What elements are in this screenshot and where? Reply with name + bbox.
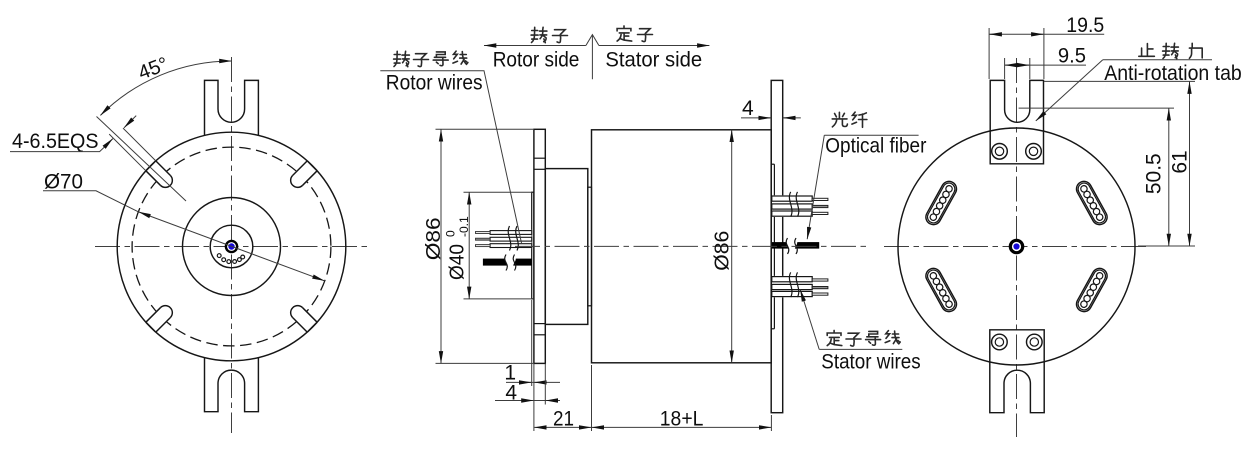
rotor wire break symbol	[508, 226, 518, 251]
svg-text:19.5: 19.5	[1066, 14, 1104, 37]
label 转子 (rotor)	[531, 27, 547, 42]
right view connector slot NW	[923, 179, 959, 228]
left view: rotor-side end view of slip ring	[10, 53, 368, 433]
stator flange tab step lines	[771, 163, 774, 165]
dimension Ø86 right (inside body): dimension line	[731, 130, 733, 363]
middle view: side cross-section	[380, 26, 926, 431]
left view bolt circle Ø70 (dashed)	[132, 147, 331, 346]
label 光纤 (optical fiber CN)	[832, 112, 847, 127]
svg-text:9.5: 9.5	[1058, 45, 1086, 68]
spacer ring between hub and body	[588, 187, 592, 306]
dimension 18+L	[770, 415, 772, 431]
left view connector pin holes (6)	[241, 255, 245, 259]
dimension Ø40 0/-0.1 text	[444, 216, 472, 280]
stator body rectangle	[592, 130, 772, 363]
rotor/stator side divider arrows	[484, 45, 586, 47]
left view horizontal centerline	[95, 246, 368, 248]
left view small hub circle	[210, 225, 253, 268]
left view rim slot NW (with 6.5 width extension lines)	[146, 161, 172, 187]
dimension Ø40 tolerance: extension lines	[464, 191, 533, 193]
svg-text:Rotor wires: Rotor wires	[386, 71, 483, 94]
left view rim slot SE	[291, 306, 317, 332]
svg-text:50.5: 50.5	[1143, 153, 1166, 194]
svg-text:Stator side: Stator side	[605, 48, 702, 71]
left view top anti-rotation tab (fork)	[205, 80, 259, 136]
bottom tab screw holes	[992, 334, 1008, 350]
right view center bearing: black ring with blue core	[1009, 239, 1025, 255]
dimension 45° arc	[100, 61, 231, 115]
svg-text:21: 21	[553, 408, 574, 431]
dimension Ø86 left: dimension line	[440, 129, 442, 363]
svg-text:-0.1: -0.1	[457, 216, 471, 237]
left view rim slot NE	[291, 161, 317, 187]
svg-text:Ø70: Ø70	[44, 171, 83, 194]
svg-text:18+L: 18+L	[660, 408, 704, 431]
svg-text:Rotor side: Rotor side	[493, 48, 580, 71]
svg-text:4: 4	[742, 97, 754, 120]
svg-text:Stator wires: Stator wires	[821, 351, 920, 374]
svg-text:Ø86: Ø86	[712, 231, 734, 271]
dimension 1 (hub lip)	[531, 300, 533, 386]
right view connector slot SW	[923, 266, 959, 315]
label 定子导线 (stator wires CN)	[827, 330, 842, 345]
svg-text:Optical fiber: Optical fiber	[825, 135, 926, 158]
svg-text:4: 4	[505, 382, 517, 405]
left view vertical centerline	[231, 57, 233, 433]
label 止转片 (anti-rotation tab CN)	[1139, 44, 1155, 57]
left view inner circle	[183, 198, 281, 296]
stator optical fiber (black bar)	[772, 242, 819, 249]
right view connector slot SE	[1074, 266, 1110, 315]
rotor hub Ø40 lip (1mm protrusion)	[532, 192, 534, 299]
right view horizontal centerline	[884, 246, 1150, 248]
svg-text:61: 61	[1169, 150, 1192, 173]
dimension Ø70: diameter line across bolt circle	[139, 212, 325, 281]
dimension Ø86 left: extension lines	[436, 128, 534, 130]
right view: stator-side end view	[884, 14, 1242, 437]
right view bottom anti-rotation tab	[990, 330, 1044, 413]
stator top wires break symbol	[789, 192, 798, 217]
rotor flange plate (4mm)	[534, 129, 545, 363]
label 转子导线 (rotor wires CN)	[394, 51, 410, 66]
right view outer circle	[898, 128, 1135, 365]
top tab screw holes	[992, 144, 1008, 160]
135° radial reference line through NW slot	[97, 117, 187, 202]
dimension 4 (rotor flange thickness)	[533, 363, 535, 431]
dimension 21	[591, 365, 593, 431]
left view center bearing: black ring with blue core	[225, 240, 239, 254]
svg-text:Ø40: Ø40	[447, 244, 469, 280]
dimension 61	[1044, 80, 1195, 82]
svg-text:4-6.5EQS: 4-6.5EQS	[12, 130, 99, 153]
stator bottom wires break symbol	[789, 272, 798, 297]
label 定子 (stator)	[617, 26, 632, 41]
dimension Ø40: dimension line	[468, 192, 470, 299]
dimension 50.5	[1019, 107, 1174, 109]
rotor wires (3 leads, left side)	[490, 230, 531, 248]
dimension 4 (stator flange thickness)	[741, 117, 771, 119]
stator wires bottom cluster (3 leads)	[772, 276, 812, 297]
rotor flange tick lines	[534, 157, 545, 159]
rotor optical fiber (black bar)	[483, 259, 532, 266]
left view outer body circle Ø86	[117, 132, 346, 361]
dimension 9.5	[1004, 58, 1006, 79]
rotor hub cylinder	[545, 169, 588, 325]
stator wires top cluster (3 leads)	[772, 195, 812, 217]
svg-text:Ø86: Ø86	[423, 217, 445, 260]
right view connector slot NE	[1074, 179, 1110, 228]
stator exit flange plate (right, 4mm)	[771, 80, 783, 412]
right view vertical centerline	[1016, 58, 1018, 437]
6.5 slot width arrows	[124, 116, 136, 128]
middle view horizontal centerline	[515, 245, 866, 247]
left view bottom anti-rotation tab (fork)	[205, 357, 259, 412]
left view rim slot SW	[146, 306, 172, 332]
dimension 19.5: extension + dimension lines	[988, 28, 990, 79]
svg-text:0: 0	[444, 230, 458, 237]
right view top anti-rotation tab	[990, 80, 1043, 163]
